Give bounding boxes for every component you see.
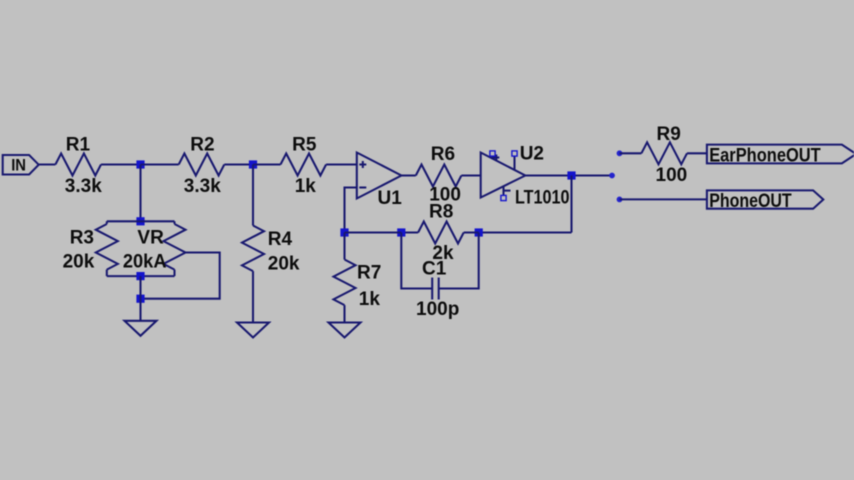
wire dot to R9 bbox=[620, 152, 642, 154]
wire feedback node to R8 node bbox=[345, 231, 402, 233]
pin U2 bias stub bbox=[512, 151, 517, 170]
wire feedback row to R8 bbox=[479, 231, 572, 233]
svg-text:R7: R7 bbox=[357, 263, 381, 284]
wire R2 to node B bbox=[224, 163, 253, 165]
wire C1 right branch bbox=[439, 233, 479, 289]
wire IN to R1 bbox=[39, 163, 56, 165]
buffer U2 LT1010 bbox=[481, 144, 570, 209]
op-amp U1 bbox=[357, 153, 402, 210]
svg-text:20kA: 20kA bbox=[123, 252, 167, 273]
resistor R7 bbox=[334, 233, 382, 323]
wire R9 to EarPhoneOUT port bbox=[687, 152, 707, 154]
port PhoneOUT bbox=[707, 190, 823, 211]
svg-text:LT1010: LT1010 bbox=[515, 188, 570, 209]
svg-text:R2: R2 bbox=[190, 135, 214, 156]
resistor R1 bbox=[55, 135, 102, 198]
wire R8 left lead bbox=[401, 231, 418, 233]
node R8 left junction bbox=[397, 228, 405, 236]
potentiometer VR bbox=[123, 221, 186, 276]
wire R5 to U1 noninverting input bbox=[326, 163, 357, 165]
node VR wiper tie junction bbox=[136, 295, 144, 303]
port IN bbox=[3, 155, 39, 175]
wire U1 output to R6 bbox=[401, 174, 415, 176]
resistor R4 bbox=[242, 165, 300, 323]
wire bottom rail to wiper node bbox=[139, 276, 141, 299]
svg-text:100: 100 bbox=[656, 165, 688, 186]
ground under R7 bbox=[329, 323, 361, 338]
svg-text:1k: 1k bbox=[295, 176, 317, 197]
node A junction bbox=[136, 160, 144, 168]
resistor R6 bbox=[416, 144, 462, 206]
resistor R8 bbox=[418, 202, 464, 265]
node top of R3-VR junction bbox=[136, 217, 144, 225]
wire dot to PhoneOUT port bbox=[620, 198, 707, 200]
wire U2 output bbox=[525, 174, 612, 176]
resistor R2 bbox=[179, 135, 225, 198]
svg-text:20k: 20k bbox=[268, 254, 300, 275]
wire R1 to node A bbox=[101, 163, 141, 165]
ground under VR network bbox=[125, 321, 157, 336]
wire node A down to R3-VR top rail bbox=[139, 165, 141, 222]
wire node A to R2 bbox=[141, 163, 179, 165]
svg-text:U2: U2 bbox=[520, 144, 544, 165]
node EarPhone net start dot bbox=[617, 150, 623, 156]
wire top rail R3-VR bbox=[107, 220, 175, 222]
port EarPhoneOUT bbox=[707, 145, 854, 167]
wire wiper node to ground bbox=[139, 299, 141, 321]
pin U2 V- stub bbox=[501, 186, 506, 200]
node bottom of R3-VR junction bbox=[136, 272, 144, 280]
svg-text:100p: 100p bbox=[416, 299, 459, 320]
wire node B to R5 bbox=[253, 163, 281, 165]
svg-text:VR: VR bbox=[137, 228, 164, 249]
svg-text:R5: R5 bbox=[292, 135, 317, 156]
wire U1 inverting input feedback bbox=[345, 188, 357, 233]
svg-text:IN: IN bbox=[11, 155, 26, 174]
svg-text:3.3k: 3.3k bbox=[65, 176, 102, 197]
svg-text:EarPhoneOUT: EarPhoneOUT bbox=[709, 145, 821, 166]
svg-text:R9: R9 bbox=[657, 124, 681, 145]
node U2 output junction bbox=[567, 171, 575, 179]
svg-text:U1: U1 bbox=[378, 188, 403, 209]
svg-text:R3: R3 bbox=[70, 228, 94, 249]
node B junction bbox=[249, 160, 257, 168]
wire bottom rail R3-VR bbox=[107, 275, 175, 277]
svg-text:1k: 1k bbox=[359, 289, 381, 310]
node output wire end dot bbox=[609, 173, 615, 179]
resistor R9 bbox=[641, 124, 687, 186]
wire R8 right lead bbox=[464, 231, 479, 233]
ground under R4 bbox=[237, 323, 269, 338]
svg-text:C1: C1 bbox=[422, 259, 447, 280]
wire feedback from output down bbox=[570, 176, 572, 233]
resistor R5 bbox=[281, 135, 327, 198]
svg-text:20k: 20k bbox=[63, 252, 95, 273]
svg-text:R8: R8 bbox=[429, 202, 453, 223]
node R8 right junction bbox=[475, 228, 483, 236]
svg-text:3.3k: 3.3k bbox=[184, 176, 221, 197]
svg-text:R4: R4 bbox=[268, 229, 293, 250]
wire C1 left branch bbox=[401, 233, 432, 289]
svg-text:PhoneOUT: PhoneOUT bbox=[709, 191, 792, 212]
node PhoneOUT net start dot bbox=[617, 197, 623, 203]
resistor R3 bbox=[63, 221, 118, 276]
wire R6 to U2 input bbox=[461, 174, 480, 176]
node feedback junction bbox=[340, 228, 348, 236]
svg-text:R1: R1 bbox=[66, 135, 91, 156]
pin U2 V+ stub bbox=[490, 151, 495, 159]
svg-text:R6: R6 bbox=[431, 144, 455, 165]
capacitor C1 bbox=[416, 259, 459, 321]
wire VR wiper arm bbox=[141, 253, 220, 299]
